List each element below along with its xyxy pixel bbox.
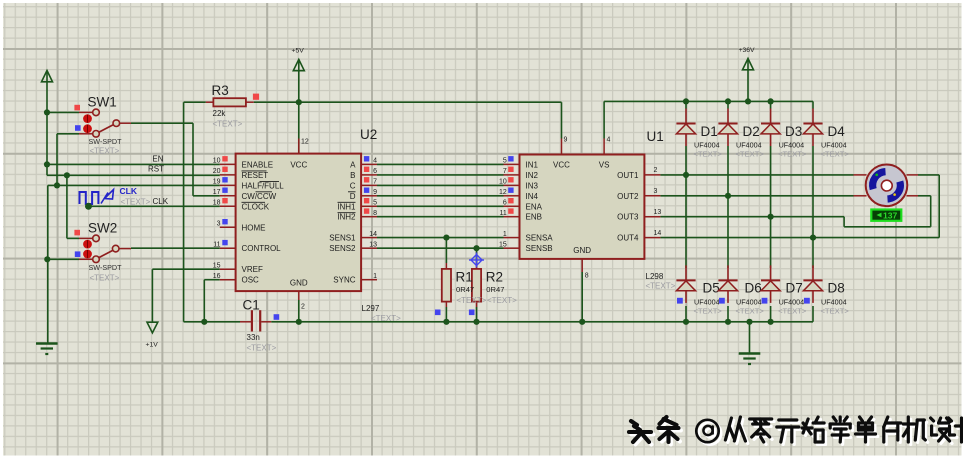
- wire ground row bottom: [184, 306, 813, 322]
- svg-text:UF4004: UF4004: [736, 297, 762, 306]
- junction OUT1/D1: [683, 172, 689, 178]
- svg-text:SW-SPDT: SW-SPDT: [89, 263, 123, 272]
- node VCC-left: +5V power symbol: [292, 48, 305, 154]
- svg-text:VREF: VREF: [242, 265, 263, 274]
- svg-text:D5: D5: [703, 281, 720, 296]
- junction OUT3/D3: [768, 214, 774, 220]
- label L297: [362, 304, 402, 323]
- wire SW1 pole to CW/CCW pin 17: [120, 123, 220, 196]
- svg-text:SENSA: SENSA: [526, 234, 554, 243]
- svg-text:14: 14: [369, 231, 377, 238]
- diode D3 UF4004: [761, 109, 807, 159]
- svg-text:13: 13: [369, 241, 377, 248]
- op-amp U1 L298 driver: [499, 129, 664, 322]
- svg-text:L297: L297: [362, 304, 380, 313]
- svg-text:SW2: SW2: [88, 221, 117, 236]
- svg-text:UF4004: UF4004: [736, 141, 762, 150]
- svg-text:2: 2: [301, 304, 305, 311]
- svg-text:ENB: ENB: [526, 213, 542, 222]
- svg-text:IN4: IN4: [526, 192, 539, 201]
- svg-text:<TEXT>: <TEXT>: [121, 198, 151, 207]
- svg-text:HALF/FULL: HALF/FULL: [242, 181, 285, 190]
- svg-text:+36V: +36V: [739, 47, 756, 54]
- svg-text:10: 10: [213, 158, 221, 165]
- svg-text:7: 7: [503, 168, 507, 175]
- svg-text:D2: D2: [743, 124, 760, 139]
- svg-text:<TEXT>: <TEXT>: [694, 150, 723, 159]
- wire OUT4 to motor: [660, 175, 939, 238]
- svg-text:20: 20: [213, 168, 221, 175]
- wire +36V rail over diodes: [604, 101, 813, 138]
- wire SENS1/SENSA net: [377, 237, 504, 239]
- svg-text:22k: 22k: [213, 109, 227, 118]
- svg-text:3: 3: [654, 188, 658, 195]
- junction gnd/U2 GND pin 2: [296, 319, 302, 325]
- svg-text:<TEXT>: <TEXT>: [487, 296, 517, 305]
- power symbol top-left rail: [42, 71, 53, 176]
- svg-text:+1V: +1V: [146, 342, 159, 349]
- diode D1 UF4004: [676, 109, 722, 159]
- svg-text:SENS2: SENS2: [329, 244, 356, 253]
- node VS: +36V power symbol: [739, 47, 756, 101]
- svg-text:D6: D6: [745, 281, 762, 296]
- svg-text:OSC: OSC: [242, 276, 260, 285]
- svg-text:11: 11: [500, 210, 507, 217]
- svg-text:1: 1: [503, 231, 507, 238]
- svg-text:4: 4: [607, 137, 611, 144]
- svg-text:D4: D4: [828, 124, 846, 139]
- svg-text:<TEXT>: <TEXT>: [213, 120, 243, 129]
- junction OUT4/D4: [810, 235, 816, 241]
- diode D6 UF4004: [718, 265, 764, 315]
- svg-text:7: 7: [373, 179, 377, 186]
- svg-text:RST: RST: [148, 165, 164, 174]
- switch SW1 SW-SPDT: [74, 95, 122, 156]
- junction gnd/U1 GND pin 8: [579, 319, 585, 325]
- svg-text:R1: R1: [456, 270, 473, 285]
- svg-text:8: 8: [585, 273, 589, 280]
- svg-text:<TEXT>: <TEXT>: [736, 150, 765, 159]
- svg-text:D7: D7: [786, 281, 803, 296]
- svg-text:<TEXT>: <TEXT>: [646, 282, 676, 291]
- wire OSC pin 16 net: [204, 280, 220, 322]
- junction gnd/ground-symbol: [746, 319, 752, 325]
- diode D5 UF4004: [676, 265, 722, 315]
- svg-text:6: 6: [373, 168, 377, 175]
- svg-text:+5V: +5V: [292, 48, 305, 55]
- wire HALF/FULL row to ground rail: [48, 184, 220, 186]
- svg-text:VCC: VCC: [553, 161, 570, 170]
- origin marker R2: [471, 255, 482, 266]
- svg-text:IN2: IN2: [526, 171, 539, 180]
- svg-text:1: 1: [373, 273, 377, 280]
- svg-text:EN: EN: [152, 155, 163, 164]
- svg-text:INH2: INH2: [337, 213, 356, 222]
- svg-text:9: 9: [564, 137, 568, 144]
- svg-text:ENA: ENA: [526, 202, 543, 211]
- svg-text:D3: D3: [785, 124, 802, 139]
- svg-text:IN3: IN3: [526, 181, 539, 190]
- wire EN net: [47, 155, 220, 165]
- svg-text:L298: L298: [646, 272, 664, 281]
- svg-text:GND: GND: [290, 279, 308, 288]
- svg-text:19: 19: [213, 179, 221, 186]
- resistor R2 0R47: [456, 248, 518, 322]
- svg-text:<TEXT>: <TEXT>: [457, 296, 487, 305]
- svg-text:2: 2: [654, 167, 658, 174]
- wire OUT1 to motor: [660, 174, 866, 176]
- diode D7 UF4004: [761, 265, 807, 315]
- label L298: [646, 272, 676, 291]
- wire SW1 top contact: [47, 111, 93, 113]
- switch SW2 SW-SPDT: [74, 221, 122, 283]
- wire SW2 pole to CONTROL pin 11: [119, 247, 220, 249]
- capacitor C1 33n: [240, 298, 279, 353]
- svg-text:SYNC: SYNC: [333, 276, 355, 285]
- svg-text:ENABLE: ENABLE: [242, 160, 274, 169]
- wire OUT3 to motor: [660, 196, 930, 227]
- svg-text:16: 16: [213, 273, 221, 280]
- svg-text:UF4004: UF4004: [821, 297, 847, 306]
- svg-text:IN1: IN1: [526, 160, 539, 169]
- diode D2 UF4004: [718, 109, 764, 159]
- junction rail/SW1 top: [44, 109, 50, 115]
- svg-text:CLK: CLK: [153, 197, 169, 206]
- power symbol +1V (down arrow): [146, 322, 159, 348]
- junction HALF-FULL/SW1-bottom rail: [54, 182, 60, 188]
- junction SENS1/R1: [443, 235, 449, 241]
- junction gnd/R1: [443, 319, 449, 325]
- svg-text:R3: R3: [212, 83, 229, 98]
- junction gnd/D6: [725, 319, 731, 325]
- op-amp U2 L297 stepper controller: [213, 127, 378, 322]
- svg-text:GND: GND: [573, 246, 591, 255]
- diode D8 UF4004: [803, 265, 849, 315]
- svg-text:17: 17: [213, 189, 221, 196]
- resistor R3 22k: [206, 83, 259, 129]
- svg-text:UF4004: UF4004: [694, 297, 720, 306]
- svg-text:5: 5: [373, 200, 377, 207]
- junction OUT2/D2: [725, 193, 731, 199]
- junction RST/SW2-top rail: [64, 172, 70, 178]
- svg-text:<TEXT>: <TEXT>: [778, 306, 807, 315]
- junction gnd/D7: [768, 319, 774, 325]
- svg-text:0R47: 0R47: [486, 285, 504, 294]
- svg-text:D1: D1: [701, 124, 718, 139]
- svg-text:SENSB: SENSB: [526, 244, 553, 253]
- svg-text:12: 12: [499, 189, 507, 196]
- svg-text:12: 12: [301, 139, 309, 146]
- wire U2 A-D / INH1-2 to U1 IN1-4 / ENA-B: [377, 164, 504, 216]
- wire SW2 bottom contact: [47, 258, 93, 260]
- svg-text:C: C: [350, 181, 356, 190]
- motor stepper: [866, 165, 908, 207]
- svg-text:D: D: [350, 192, 356, 201]
- svg-text:OUT3: OUT3: [617, 213, 639, 222]
- svg-text:6: 6: [503, 200, 507, 207]
- svg-text:INH1: INH1: [337, 202, 356, 211]
- svg-text:OUT2: OUT2: [617, 192, 639, 201]
- junction ground-rail/SW2 bottom: [44, 256, 50, 262]
- svg-text:8: 8: [373, 210, 377, 217]
- svg-text:15: 15: [499, 241, 507, 248]
- svg-text:5: 5: [503, 158, 507, 165]
- svg-text:<TEXT>: <TEXT>: [694, 306, 723, 315]
- svg-text:4: 4: [373, 158, 377, 165]
- svg-text:9: 9: [373, 189, 377, 196]
- svg-text:HOME: HOME: [242, 223, 266, 232]
- wire CLK to CLOCK pin 18: [89, 205, 220, 207]
- generator CLK pulse source: [80, 186, 169, 210]
- junction gnd/OSC: [201, 319, 207, 325]
- svg-text:13: 13: [654, 209, 662, 216]
- svg-text:OUT1: OUT1: [617, 171, 639, 180]
- svg-text:C1: C1: [243, 298, 260, 313]
- svg-text:UF4004: UF4004: [694, 141, 720, 150]
- svg-text:10: 10: [499, 179, 507, 186]
- wire RST to SW2 top contact: [67, 175, 93, 238]
- wire OUT2 to motor: [660, 195, 866, 197]
- svg-text:137: 137: [883, 210, 898, 220]
- svg-text:11: 11: [213, 241, 220, 248]
- svg-text:SW-SPDT: SW-SPDT: [89, 137, 123, 146]
- svg-text:UF4004: UF4004: [821, 141, 847, 150]
- wire SENS2/SENSB net: [377, 247, 504, 249]
- svg-text:SENS1: SENS1: [329, 234, 356, 243]
- wire ground rail left: [47, 185, 49, 343]
- ground symbol bottom-left: [36, 344, 58, 355]
- svg-text:UF4004: UF4004: [779, 297, 805, 306]
- svg-text:VCC: VCC: [290, 161, 307, 170]
- svg-text:3: 3: [217, 221, 221, 228]
- junction rail/+36V: [745, 98, 751, 104]
- wire RST net: [47, 165, 220, 176]
- wire +5V rail to R3 and U1 VCC: [254, 102, 562, 138]
- svg-text:<TEXT>: <TEXT>: [778, 150, 807, 159]
- svg-text:18: 18: [213, 200, 221, 207]
- junction +5V rail / U2 VCC: [296, 99, 302, 105]
- svg-text:33n: 33n: [247, 333, 260, 342]
- svg-text:A: A: [350, 160, 356, 169]
- svg-text:U1: U1: [647, 129, 664, 144]
- junction rail/D1: [683, 98, 689, 104]
- svg-text:0R47: 0R47: [456, 285, 474, 294]
- svg-text:CONTROL: CONTROL: [242, 244, 282, 253]
- svg-text:CW/CCW: CW/CCW: [242, 192, 277, 201]
- motor speed display +137: [871, 210, 901, 221]
- wire VREF to +1V: [152, 269, 219, 322]
- wire SW1 bottom contact rail: [57, 134, 93, 186]
- ground symbol bottom-middle: [739, 322, 761, 364]
- svg-text:14: 14: [654, 230, 662, 237]
- junction gnd/R2: [473, 319, 479, 325]
- svg-text:SW1: SW1: [88, 95, 117, 110]
- svg-text:UF4004: UF4004: [779, 141, 805, 150]
- svg-text:CLK: CLK: [120, 186, 138, 196]
- junction rail/D3: [768, 98, 774, 104]
- wire R3 left to ground row (vertical): [184, 102, 206, 322]
- svg-text:RESET: RESET: [242, 171, 269, 180]
- svg-text:<TEXT>: <TEXT>: [90, 147, 120, 156]
- svg-text:<TEXT>: <TEXT>: [247, 344, 277, 353]
- watermark text: [629, 417, 963, 445]
- resistor R1 0R47: [435, 238, 451, 322]
- svg-text:<TEXT>: <TEXT>: [736, 306, 765, 315]
- diode D4 UF4004: [803, 109, 849, 159]
- svg-text:OUT4: OUT4: [617, 234, 639, 243]
- junction rail/D2: [725, 98, 731, 104]
- svg-text:B: B: [350, 171, 355, 180]
- svg-text:<TEXT>: <TEXT>: [90, 274, 120, 283]
- svg-text:<TEXT>: <TEXT>: [371, 314, 401, 323]
- junction SENS2/R2: [473, 245, 479, 251]
- svg-text:15: 15: [213, 262, 221, 269]
- junction rail/EN: [44, 161, 50, 167]
- svg-text:<TEXT>: <TEXT>: [821, 306, 850, 315]
- junction gnd/D5: [683, 319, 689, 325]
- wire diode columns vertical: [686, 101, 813, 321]
- svg-text:CLOCK: CLOCK: [242, 202, 270, 211]
- svg-text:VS: VS: [599, 161, 610, 170]
- svg-text:R2: R2: [486, 270, 503, 285]
- svg-text:D8: D8: [828, 281, 845, 296]
- svg-text:U2: U2: [360, 127, 377, 142]
- svg-text:<TEXT>: <TEXT>: [821, 150, 850, 159]
